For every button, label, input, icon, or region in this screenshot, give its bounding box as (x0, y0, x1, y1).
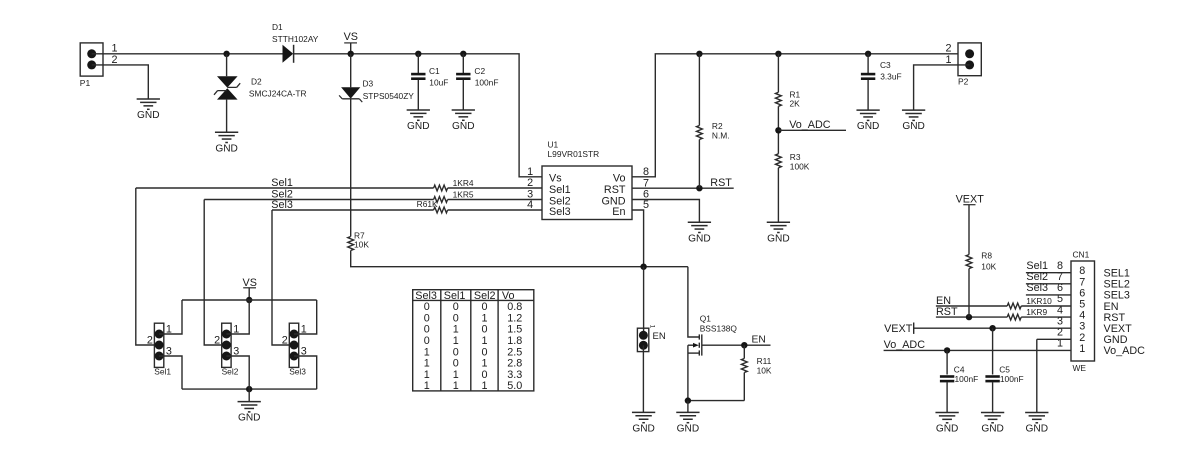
svg-text:1KR10: 1KR10 (1026, 296, 1052, 306)
svg-text:0: 0 (424, 324, 430, 336)
svg-text:Vo: Vo (613, 173, 626, 185)
svg-text:Sel3: Sel3 (1026, 282, 1048, 294)
svg-text:1: 1 (453, 380, 459, 392)
svg-text:Q1: Q1 (700, 314, 712, 324)
svg-text:2K: 2K (790, 99, 801, 109)
svg-text:1: 1 (527, 166, 533, 178)
svg-text:3: 3 (166, 346, 172, 358)
svg-text:BSS138Q: BSS138Q (700, 324, 738, 334)
svg-text:1: 1 (481, 358, 487, 370)
svg-text:1: 1 (453, 335, 459, 347)
svg-text:0: 0 (481, 369, 487, 381)
svg-text:R61K: R61K (417, 199, 438, 209)
svg-text:0: 0 (481, 324, 487, 336)
svg-text:R8: R8 (981, 251, 992, 261)
svg-text:SMCJ24CA-TR: SMCJ24CA-TR (249, 89, 307, 99)
svg-text:GND: GND (632, 424, 655, 435)
svg-text:Vo_ADC: Vo_ADC (884, 339, 926, 351)
svg-text:10uF: 10uF (429, 77, 448, 87)
svg-text:VS: VS (243, 277, 257, 289)
svg-text:1: 1 (1079, 343, 1085, 355)
svg-text:GND: GND (238, 413, 261, 424)
svg-text:100nF: 100nF (475, 77, 499, 87)
svg-text:100nF: 100nF (955, 374, 979, 384)
svg-text:C2: C2 (474, 66, 485, 76)
svg-text:0: 0 (424, 335, 430, 347)
svg-text:100nF: 100nF (1000, 374, 1024, 384)
svg-text:Sel3: Sel3 (289, 367, 306, 377)
svg-text:1: 1 (453, 324, 459, 336)
svg-text:3.3: 3.3 (507, 369, 522, 381)
svg-text:C5: C5 (999, 364, 1010, 374)
svg-text:C3: C3 (880, 60, 891, 70)
svg-text:GND: GND (767, 233, 790, 244)
svg-text:10K: 10K (981, 262, 996, 272)
svg-text:R2: R2 (712, 121, 723, 131)
svg-text:1: 1 (112, 42, 118, 54)
svg-text:CN1: CN1 (1073, 249, 1090, 259)
svg-text:10K: 10K (354, 240, 369, 250)
svg-text:1: 1 (424, 358, 430, 370)
svg-text:Vs: Vs (549, 173, 562, 185)
svg-text:2: 2 (214, 335, 220, 347)
svg-text:2.8: 2.8 (507, 358, 522, 370)
svg-text:1: 1 (233, 324, 239, 336)
svg-text:0: 0 (424, 312, 430, 324)
svg-text:GND: GND (981, 424, 1004, 435)
svg-text:GND: GND (857, 121, 880, 132)
svg-text:STPS0540ZY: STPS0540ZY (363, 91, 415, 101)
svg-text:0: 0 (453, 301, 459, 313)
svg-text:3: 3 (233, 346, 239, 358)
svg-text:RST: RST (604, 184, 626, 196)
svg-text:1: 1 (945, 54, 951, 66)
svg-text:1: 1 (424, 346, 430, 358)
svg-text:GND: GND (137, 110, 160, 121)
svg-text:P1: P1 (80, 78, 91, 88)
svg-text:0: 0 (453, 346, 459, 358)
svg-text:100K: 100K (790, 162, 810, 172)
svg-text:5.0: 5.0 (507, 380, 522, 392)
svg-text:GND: GND (452, 121, 475, 132)
svg-text:1.8: 1.8 (507, 335, 522, 347)
svg-text:En: En (612, 206, 625, 218)
svg-text:GND: GND (1026, 424, 1049, 435)
svg-text:VEXT: VEXT (956, 193, 985, 205)
svg-text:3.3uF: 3.3uF (880, 72, 901, 82)
svg-text:Sel2: Sel2 (222, 367, 239, 377)
svg-text:1.5: 1.5 (507, 324, 522, 336)
svg-text:1KR9: 1KR9 (1026, 307, 1047, 317)
svg-text:0: 0 (481, 346, 487, 358)
svg-text:D1: D1 (272, 22, 283, 32)
svg-text:1: 1 (166, 324, 172, 336)
svg-text:0: 0 (481, 301, 487, 313)
svg-text:0: 0 (424, 301, 430, 313)
svg-text:0: 0 (453, 358, 459, 370)
svg-text:Sel1: Sel1 (154, 367, 171, 377)
svg-text:GND: GND (936, 424, 959, 435)
svg-text:1: 1 (481, 335, 487, 347)
svg-text:Vo_ADC: Vo_ADC (1104, 345, 1146, 357)
svg-text:2: 2 (945, 42, 951, 54)
svg-text:EN: EN (653, 331, 666, 342)
svg-text:Sel1: Sel1 (549, 184, 571, 196)
svg-text:GND: GND (215, 143, 238, 154)
svg-text:D3: D3 (363, 78, 374, 88)
svg-text:STTH102AY: STTH102AY (272, 34, 319, 44)
svg-text:EN: EN (752, 334, 766, 345)
svg-text:Sel1: Sel1 (271, 177, 293, 189)
svg-text:1.2: 1.2 (507, 312, 522, 324)
svg-text:GND: GND (407, 121, 430, 132)
svg-text:1: 1 (649, 325, 656, 329)
svg-text:4: 4 (527, 199, 533, 211)
svg-text:GND: GND (902, 121, 925, 132)
svg-text:WE: WE (1073, 363, 1087, 373)
svg-text:1: 1 (424, 380, 430, 392)
svg-text:Vo_ADC: Vo_ADC (789, 119, 831, 131)
svg-text:C1: C1 (429, 66, 440, 76)
svg-text:2: 2 (147, 335, 153, 347)
svg-text:1: 1 (424, 369, 430, 381)
svg-text:1: 1 (481, 312, 487, 324)
svg-text:GND: GND (688, 233, 711, 244)
svg-text:2.5: 2.5 (507, 346, 522, 358)
svg-text:1KR4: 1KR4 (453, 178, 474, 188)
svg-text:N.M.: N.M. (712, 131, 730, 141)
svg-text:1: 1 (453, 369, 459, 381)
svg-text:RST: RST (710, 177, 732, 189)
svg-text:Sel3: Sel3 (549, 206, 571, 218)
svg-text:1: 1 (481, 380, 487, 392)
svg-text:GND: GND (677, 424, 700, 435)
svg-text:P2: P2 (958, 76, 969, 86)
svg-text:C4: C4 (954, 364, 965, 374)
svg-text:0.8: 0.8 (507, 301, 522, 313)
svg-text:10K: 10K (757, 365, 772, 375)
svg-text:3: 3 (301, 346, 307, 358)
svg-text:2: 2 (112, 54, 118, 66)
svg-text:VEXT: VEXT (884, 323, 913, 335)
svg-text:2: 2 (282, 335, 288, 347)
svg-text:L99VR01STR: L99VR01STR (548, 149, 600, 159)
svg-text:VS: VS (344, 31, 358, 43)
svg-text:Sel3: Sel3 (271, 199, 293, 211)
svg-text:1KR5: 1KR5 (453, 190, 474, 200)
svg-text:0: 0 (453, 312, 459, 324)
svg-text:1: 1 (301, 324, 307, 336)
svg-text:D2: D2 (251, 76, 262, 86)
svg-text:RST: RST (936, 306, 958, 318)
